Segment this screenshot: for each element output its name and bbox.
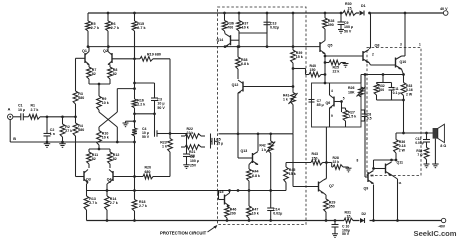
transistor Q8: [363, 43, 379, 62]
wire -40V bottom rail: [87, 220, 442, 222]
node top rail junction x325: [324, 12, 327, 15]
svg-text:82: 82: [92, 157, 96, 161]
node y190.5 x107: [106, 189, 136, 192]
capacitor C11: [389, 83, 401, 101]
node bottom x270.7: [269, 219, 272, 222]
resistor R45: [284, 163, 296, 191]
svg-text:Q14: Q14: [217, 38, 224, 42]
svg-text:680: 680: [78, 96, 84, 100]
wire Q11 emitter line: [357, 158, 398, 162]
svg-text:Q10: Q10: [400, 60, 407, 64]
svg-text:A: A: [8, 108, 11, 112]
svg-text:5: 5: [343, 97, 345, 101]
wire output column: [403, 100, 405, 133]
svg-text:1 n: 1 n: [50, 132, 55, 136]
wire x267 drop: [266, 13, 268, 47]
node bottom x227: [226, 219, 229, 222]
node top rail junction x293: [292, 12, 295, 15]
svg-text:350: 350: [329, 205, 335, 209]
resistor R29: [324, 199, 336, 221]
wire Q12 emitter column: [237, 93, 239, 158]
svg-text:10 k: 10 k: [102, 101, 109, 105]
node rail2 x88: [87, 45, 90, 48]
wire y190.5 line: [87, 190, 287, 192]
resistor R41 variable: [283, 87, 298, 105]
node center y113.8: [133, 112, 136, 115]
svg-text:8 Ω: 8 Ω: [440, 144, 446, 148]
capacitor C12: [415, 133, 430, 148]
ground under C6: [183, 165, 190, 169]
resistor R6: [106, 13, 120, 47]
capacitor C8: [361, 110, 372, 121]
resistor R18: [132, 193, 147, 221]
node bottom x335: [334, 219, 337, 222]
resistor R39: [291, 47, 303, 88]
capacitor C7: [309, 99, 324, 107]
wire box Q15 base: [219, 191, 225, 200]
ground center: [123, 123, 129, 127]
svg-text:R19 680: R19 680: [147, 52, 161, 56]
node y190.5 x238: [237, 189, 240, 192]
svg-text:40 V: 40 V: [440, 7, 448, 11]
svg-text:2 W: 2 W: [399, 148, 406, 152]
resistor R34: [394, 133, 406, 160]
transistor Q12: [232, 80, 293, 93]
wire Q10 emitter: [402, 69, 404, 75]
wire input shield B: [10, 120, 134, 143]
label pin 1: [419, 43, 421, 47]
svg-text:Q11: Q11: [397, 160, 404, 164]
transistor Q2: [103, 49, 135, 65]
svg-text:8: 8: [357, 158, 359, 162]
resistor R30: [343, 2, 356, 15]
svg-text:2.7 k: 2.7 k: [91, 26, 100, 30]
svg-text:25V: 25V: [190, 163, 197, 167]
wire Q9 base column: [365, 75, 368, 178]
wire cluster frame: [187, 134, 211, 149]
wire Q10 collector: [402, 13, 406, 56]
wire Q11 base line: [372, 167, 385, 170]
capacitor C2: [44, 117, 55, 144]
svg-text:Q6: Q6: [326, 101, 331, 105]
wire Q6 emitter: [330, 108, 334, 127]
svg-text:Q5: Q5: [328, 44, 333, 48]
node x134.5 y88.6: [133, 87, 136, 90]
resistor R38: [236, 47, 249, 79]
wire R19 feedback column: [169, 59, 171, 134]
resistor R16: [132, 99, 145, 109]
wire cross couple: [99, 89, 135, 142]
resistor R22: [181, 127, 205, 138]
svg-text:390: 390: [328, 23, 334, 27]
wire Q6 base node: [340, 97, 345, 112]
node center y121.2: [133, 120, 136, 123]
node rail2 x108.5: [107, 45, 110, 48]
svg-text:150: 150: [310, 68, 316, 72]
resistor R44: [247, 169, 260, 191]
wire +40V top rail: [88, 12, 443, 14]
svg-text:1 k: 1 k: [261, 148, 266, 152]
resistor R2: [60, 117, 72, 144]
terminal -40V: [438, 218, 446, 228]
wire y113.8 line: [135, 112, 156, 115]
svg-text:Q7: Q7: [329, 184, 334, 188]
wire Q9 collector: [373, 160, 375, 170]
label PROTECTION CIRCUIT: [160, 226, 217, 236]
wire emitter node y74.5: [361, 73, 405, 76]
resistor R21: [181, 145, 205, 158]
transistor Q15: [217, 190, 230, 206]
svg-text:1 k: 1 k: [283, 98, 288, 102]
svg-text:2.7 k: 2.7 k: [139, 204, 147, 208]
svg-text:Q13: Q13: [241, 149, 248, 153]
svg-text:10: 10: [370, 173, 374, 177]
terminal input A: [8, 108, 13, 120]
resistor R26 variable: [348, 86, 366, 97]
speaker: [433, 124, 447, 148]
resistor R12: [108, 152, 120, 168]
wire speaker ground: [434, 139, 436, 164]
capacitor C6: [183, 149, 199, 168]
node Q12 base: [292, 85, 295, 88]
wire y162.5 line: [286, 162, 311, 164]
capacitor C4: [142, 114, 169, 139]
resistor R37: [237, 13, 249, 47]
svg-text:2.7 k: 2.7 k: [31, 108, 39, 112]
resistor R5: [86, 13, 100, 47]
wire Q14 collector: [224, 31, 227, 34]
transistor Q14: [217, 34, 231, 47]
wire Q6 collector: [330, 83, 334, 95]
svg-text:15 k: 15 k: [296, 55, 303, 59]
svg-text:15: 15: [348, 6, 352, 10]
wire Q5 emitter column: [324, 54, 326, 84]
transistor Q13: [238, 149, 258, 165]
svg-text:2: 2: [372, 53, 374, 57]
node x326.4 y162.5: [325, 161, 328, 164]
svg-text:27 k: 27 k: [65, 129, 72, 133]
svg-text:10 k: 10 k: [252, 212, 259, 216]
transistor Q11: [386, 160, 404, 185]
node top rail junction x239: [238, 12, 241, 15]
node top rail junction x405: [404, 12, 407, 15]
node rail2 x267: [266, 45, 269, 48]
node top rail junction x108: [107, 12, 110, 15]
node rail2 x239: [238, 45, 241, 48]
wire emitter tie: [89, 83, 110, 96]
resistor R4: [73, 117, 84, 177]
node R42 tap y133.8: [269, 132, 272, 135]
node top rail junction x370: [368, 12, 371, 15]
wire frame to R33: [392, 99, 405, 102]
svg-text:Q2: Q2: [103, 49, 108, 53]
svg-text:D1: D1: [361, 4, 366, 8]
node y190.5 x230: [228, 189, 231, 192]
node Q2 base x134.5: [133, 57, 136, 60]
svg-text:15: 15: [347, 215, 351, 219]
wire output rail: [396, 132, 433, 135]
svg-text:6.8 k: 6.8 k: [241, 62, 249, 66]
wire center column: [134, 31, 136, 200]
svg-text:82: 82: [92, 72, 96, 76]
svg-text:680: 680: [78, 128, 84, 132]
watermark SeekIC.com: [414, 229, 457, 238]
node input x62.5: [61, 115, 64, 118]
node R39 bottom: [292, 67, 295, 70]
svg-text:Q3: Q3: [86, 178, 91, 182]
node center y142: [133, 141, 136, 144]
wire Q2 collector: [107, 47, 109, 52]
wire Q7 collector: [324, 163, 327, 181]
node rail2 x293: [292, 45, 295, 48]
wire Q1 collector: [88, 47, 90, 52]
svg-text:0.05μ: 0.05μ: [415, 141, 423, 145]
terminal +40V: [440, 7, 448, 15]
node x325 y56: [324, 55, 327, 58]
svg-text:50 V: 50 V: [157, 106, 165, 110]
wire y133.8 line: [219, 132, 294, 135]
wire x293 rail drop: [292, 13, 294, 47]
ground R28b: [346, 168, 352, 172]
resistor R19: [135, 52, 171, 61]
resistor R33: [401, 75, 413, 101]
node bottom x397.5: [396, 219, 399, 222]
svg-text:100: 100: [378, 88, 384, 92]
ground under C10: [332, 234, 338, 238]
svg-text:700: 700: [227, 26, 233, 30]
wire Q8 collector: [369, 13, 371, 49]
wire C4 line to frame: [169, 132, 187, 135]
wire Q7 emitter: [324, 193, 327, 199]
svg-text:0.5: 0.5: [367, 117, 372, 121]
svg-text:10 k: 10 k: [242, 26, 249, 30]
wire Q15 emitter: [227, 205, 230, 207]
svg-text:2.7 k: 2.7 k: [110, 201, 118, 205]
wire Q4 collector down: [107, 183, 109, 191]
wire Q14 base: [231, 39, 240, 41]
ground under R2: [59, 141, 66, 147]
wire R42 column down: [269, 153, 272, 192]
resistor R14: [105, 191, 118, 221]
diode D1: [360, 4, 366, 15]
resistor R25: [325, 60, 346, 74]
svg-text:200: 200: [230, 212, 236, 216]
svg-text:50 V: 50 V: [142, 135, 150, 139]
wire Q13 emitter: [249, 161, 253, 169]
transistor Q6: [326, 95, 342, 108]
transistor Q7: [293, 180, 334, 193]
svg-text:2.7 k: 2.7 k: [111, 26, 120, 30]
resistor R13: [84, 191, 97, 221]
svg-text:D2: D2: [362, 212, 367, 216]
output module dashed box: [367, 48, 421, 176]
resistor R28: [323, 13, 335, 40]
capacitor C13: [239, 13, 279, 33]
svg-text:680: 680: [145, 170, 151, 174]
resistor R46: [225, 206, 237, 221]
node top rail junction x267: [266, 12, 269, 15]
svg-text:9: 9: [331, 114, 333, 118]
wire Q8 emitter to Q10: [369, 63, 396, 66]
resistor R32: [374, 83, 385, 101]
resistor R10: [97, 131, 109, 150]
node top rail junction x341: [340, 12, 343, 15]
transistor Q9: [364, 171, 375, 191]
node x325 y74.5: [324, 73, 327, 76]
node center y176.5: [133, 175, 136, 178]
svg-text:7: 7: [366, 137, 368, 141]
svg-text:2.7 k: 2.7 k: [137, 26, 146, 30]
capacitor C14: [267, 191, 282, 221]
wire Q3 collector down: [87, 183, 89, 191]
svg-text:85 μ: 85 μ: [317, 103, 324, 107]
wire Q9 emitter: [373, 185, 375, 221]
svg-text:22 k: 22 k: [187, 131, 194, 135]
transistor Q10: [396, 56, 407, 69]
node top rail junction x224.5: [223, 12, 226, 15]
resistor R15: [132, 13, 146, 59]
wire collector rail y47: [88, 46, 320, 48]
svg-text:1 k: 1 k: [162, 145, 167, 149]
wire R26 top tie: [360, 75, 362, 84]
ground under R35: [424, 164, 430, 168]
transistor Q5: [320, 41, 332, 54]
node bottom x249: [248, 219, 251, 222]
resistor R1: [29, 104, 76, 120]
bias network solid box: [312, 83, 362, 127]
wire Q5 collector: [324, 40, 326, 41]
svg-text:2.7 k: 2.7 k: [89, 201, 97, 205]
node B line x117.3: [116, 141, 119, 144]
resistor R27: [342, 108, 357, 127]
svg-text:10 μ: 10 μ: [18, 108, 25, 112]
svg-text:15 k: 15 k: [289, 172, 296, 176]
wire bias box to Q7 collector: [325, 127, 327, 163]
resistor R7: [87, 65, 97, 85]
resistor R9: [97, 96, 109, 110]
resistor R47: [247, 191, 259, 221]
wire stub ground left: [126, 121, 135, 123]
wire Q14 emitter: [224, 45, 227, 48]
svg-text:18K: 18K: [348, 90, 355, 94]
node x325 y62.5: [324, 61, 327, 64]
resistor R17: [132, 128, 137, 136]
resistor R11: [87, 152, 99, 168]
transistor Q1: [76, 49, 90, 65]
svg-text:7 Ω: 7 Ω: [417, 153, 423, 157]
svg-text:-40V: -40V: [438, 224, 446, 228]
resistor R23: [160, 134, 172, 177]
svg-text:50 V: 50 V: [342, 232, 350, 236]
wire R32C11 frame: [377, 73, 392, 100]
capacitor C5: [211, 137, 224, 145]
ground under speaker: [432, 164, 439, 168]
svg-text:82: 82: [113, 72, 117, 76]
svg-text:SeekIC.com: SeekIC.com: [414, 229, 457, 238]
svg-text:2.2 k: 2.2 k: [137, 103, 145, 107]
svg-text:0.1 μ: 0.1 μ: [393, 91, 401, 95]
diode D2: [360, 212, 366, 223]
svg-text:150: 150: [312, 156, 318, 160]
resistor R36: [222, 13, 234, 31]
wire Q11 collector: [392, 175, 398, 221]
transistor Q4: [107, 170, 135, 183]
node bottom x107: [106, 219, 109, 222]
node box top x325: [324, 82, 327, 85]
svg-text:Q1: Q1: [82, 49, 87, 53]
ground R25: [343, 64, 349, 68]
svg-text:2 W: 2 W: [406, 92, 413, 96]
wire R3 column: [73, 58, 84, 117]
protection circuit dashed box: [218, 7, 307, 225]
wire R11R12 header: [89, 148, 110, 152]
svg-text:Q9: Q9: [364, 186, 369, 190]
svg-text:0.02μ: 0.02μ: [273, 212, 282, 216]
node bottom x134.5: [133, 219, 136, 222]
node rail2 x238: [237, 45, 240, 48]
resistor R43: [311, 152, 332, 165]
svg-text:11: 11: [398, 181, 402, 185]
ground under C9: [338, 30, 344, 34]
svg-text:6.8 k: 6.8 k: [252, 174, 260, 178]
capacitor C10: [332, 221, 350, 237]
resistor R8: [108, 65, 118, 85]
capacitor C3: [133, 82, 165, 114]
capacitor C9: [338, 13, 354, 33]
svg-text:1.5 k: 1.5 k: [348, 115, 356, 119]
resistor R28b: [332, 156, 349, 170]
svg-text:B: B: [13, 137, 16, 141]
node input x47: [46, 115, 49, 118]
wire Q8 base line: [325, 55, 363, 57]
svg-text:Q15: Q15: [217, 190, 224, 194]
resistor R20: [143, 166, 153, 179]
transistor Q3: [76, 170, 91, 183]
wire Q15 collector: [229, 191, 231, 194]
node top rail junction x134.5: [133, 12, 136, 15]
resistor R35: [416, 148, 429, 164]
resistor R42 variable: [259, 134, 275, 153]
svg-text:Q12: Q12: [232, 83, 239, 87]
label pin 3: [400, 43, 402, 47]
svg-text:1: 1: [419, 43, 421, 47]
svg-text:4: 4: [331, 89, 333, 93]
node input x75.5: [74, 115, 77, 118]
node bottom x373.5: [372, 219, 375, 222]
node y190.5 x249: [248, 189, 251, 192]
resistor R40: [293, 64, 325, 77]
svg-text:0.02μ: 0.02μ: [270, 26, 279, 30]
wire R20 line: [113, 176, 170, 178]
wire Q13 collector: [257, 134, 259, 151]
svg-text:10 k: 10 k: [102, 136, 109, 140]
svg-text:22 k: 22 k: [333, 160, 340, 164]
ground under C2: [44, 141, 51, 147]
svg-text:Q4: Q4: [107, 178, 112, 182]
svg-text:22 k: 22 k: [333, 70, 340, 74]
svg-text:50 V: 50 V: [344, 29, 352, 33]
node bottom x326: [325, 219, 328, 222]
svg-text:Q8: Q8: [375, 43, 380, 47]
resistor R31: [344, 210, 353, 223]
svg-text:3: 3: [400, 43, 402, 47]
capacitor C1: [13, 104, 29, 121]
svg-text:PROTECTION CIRCUIT: PROTECTION CIRCUIT: [160, 230, 207, 235]
svg-text:82: 82: [113, 157, 117, 161]
wire R41 down: [292, 105, 294, 187]
